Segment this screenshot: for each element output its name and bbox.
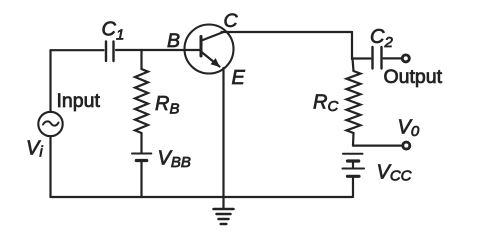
wire left vertical upper xyxy=(49,50,51,112)
emitter arrowhead xyxy=(211,58,221,67)
resistor RB xyxy=(135,69,148,133)
wire C2 to output terminal xyxy=(384,57,402,59)
transistor emitter lead xyxy=(202,52,220,67)
battery VCC cell1 long plate xyxy=(343,153,363,155)
source sine xyxy=(43,121,59,125)
battery VCC cell2 long plate xyxy=(343,168,365,170)
capacitor C2 xyxy=(373,47,382,69)
ground xyxy=(214,208,234,211)
wire RB to VBB xyxy=(140,133,142,153)
wire to V0 terminal xyxy=(353,145,402,147)
wire C1 to base xyxy=(116,49,201,51)
svg-text:C2: C2 xyxy=(370,26,393,51)
wire VCC to rail xyxy=(352,176,354,197)
battery VCC cell1 short plate xyxy=(348,159,359,162)
wire right corner down xyxy=(351,32,353,59)
svg-text:VBB: VBB xyxy=(158,148,191,171)
svg-text:V0: V0 xyxy=(398,117,420,141)
battery VCC inter-cell stub xyxy=(352,161,354,168)
wire left vertical lower xyxy=(49,136,51,197)
source Vi circle xyxy=(38,112,62,136)
wire RC to V0 node xyxy=(352,133,355,146)
capacitor C1 xyxy=(106,42,114,62)
wire top-left horizontal to C1 xyxy=(51,49,104,51)
svg-text:Output: Output xyxy=(384,66,443,88)
output terminal xyxy=(402,55,409,62)
transistor base bar xyxy=(200,37,203,57)
wire junction to RC xyxy=(353,59,354,72)
svg-text:Input: Input xyxy=(57,90,101,112)
transistor Q1 circle xyxy=(185,25,234,74)
svg-text:Vi: Vi xyxy=(26,138,43,161)
svg-text:C1: C1 xyxy=(102,19,125,44)
svg-text:B: B xyxy=(167,30,180,52)
battery VBB xyxy=(132,153,151,155)
resistor RC xyxy=(347,71,361,133)
wire bottom rail xyxy=(51,196,353,198)
wire VBB to rail xyxy=(140,161,142,197)
svg-text:E: E xyxy=(232,67,246,89)
svg-text:RB: RB xyxy=(155,93,179,117)
wire to C2 xyxy=(352,57,371,59)
svg-text:VCC: VCC xyxy=(377,162,412,185)
battery VCC cell2 short plate xyxy=(348,175,360,178)
wire emitter vertical xyxy=(222,68,224,197)
transistor collector lead xyxy=(202,32,224,41)
wire RB drop xyxy=(140,50,142,69)
svg-text:C: C xyxy=(224,10,239,32)
V0 terminal xyxy=(403,142,410,149)
wire ground stub xyxy=(222,197,224,209)
wire collector top xyxy=(222,31,353,33)
svg-text:RC: RC xyxy=(313,92,338,116)
